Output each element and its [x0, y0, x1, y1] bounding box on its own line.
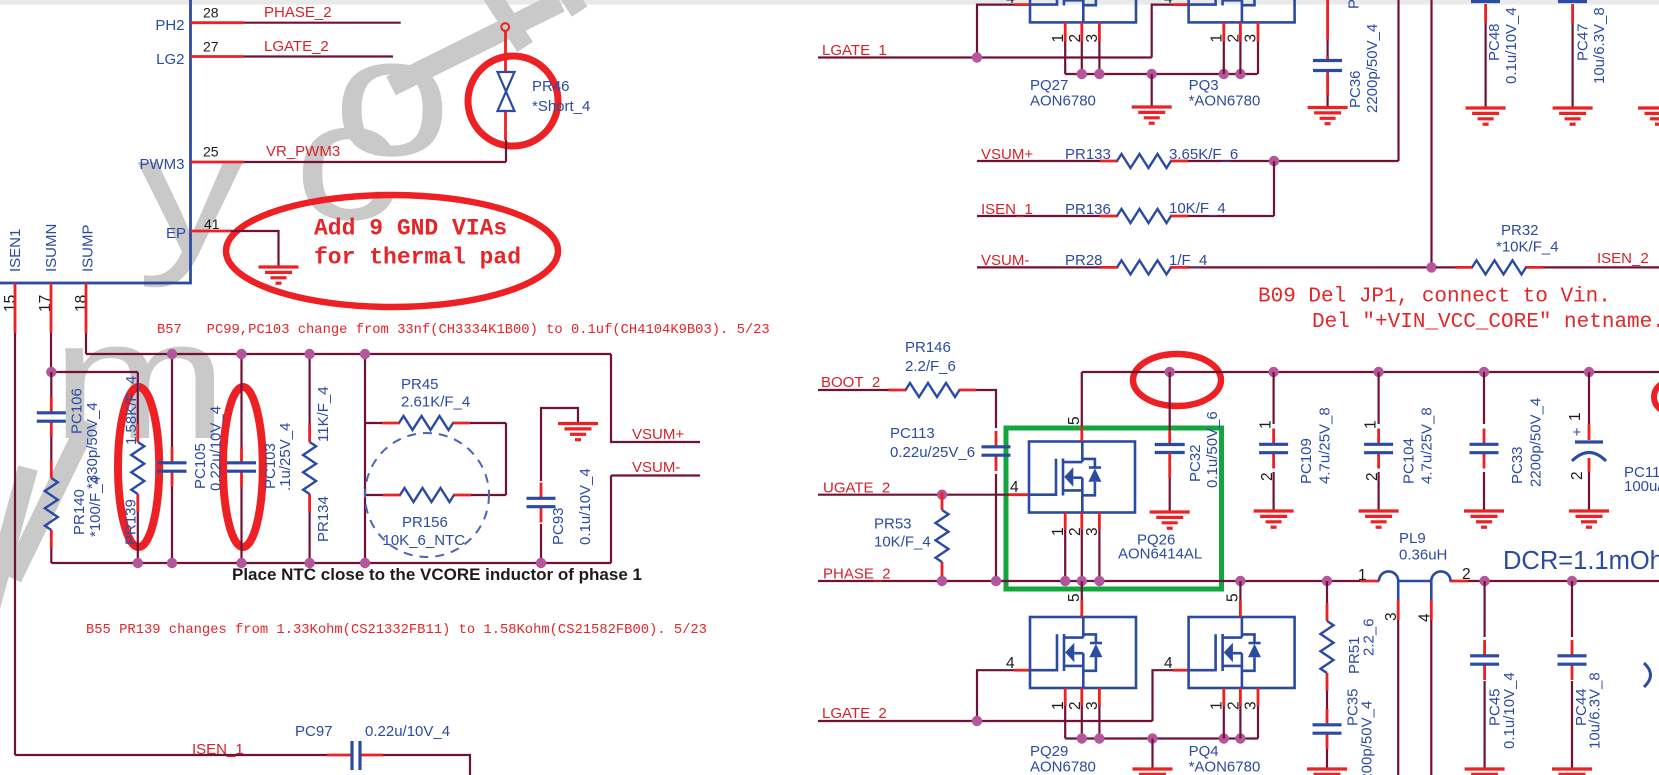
svg-text:VSUM+: VSUM+: [632, 426, 684, 443]
wire PQ26 drain: [1081, 372, 1083, 426]
svg-text:ISEN_1: ISEN_1: [981, 201, 1033, 218]
svg-text:5: 5: [1066, 593, 1083, 602]
wire EP to ground: [231, 231, 279, 267]
wire PQ29 drain: [1081, 581, 1083, 600]
svg-text:PC104: PC104: [1401, 438, 1418, 484]
svg-text:2.2_6: 2.2_6: [1361, 618, 1378, 656]
svg-text:PC48: PC48: [1486, 23, 1503, 61]
svg-text:LGATE_2: LGATE_2: [264, 38, 329, 55]
wire PQ27 source to bus: [1065, 42, 1099, 75]
svg-text:ISEN_2: ISEN_2: [1597, 250, 1649, 267]
svg-text:LGATE_2: LGATE_2: [822, 705, 887, 722]
resistor PR46 *Short_4 branch: [501, 23, 509, 31]
wire VR_PWM3: [244, 140, 506, 162]
wire VSUM- riser: [1430, 0, 1432, 267]
svg-text:VSUM+: VSUM+: [981, 146, 1033, 163]
pin ISUMP stub: [85, 283, 88, 333]
svg-text:PC47: PC47: [1575, 23, 1592, 61]
pin 4 stub PQ4: [1173, 669, 1189, 672]
capacitor PC36: [1326, 0, 1329, 40]
svg-text:ISUMN: ISUMN: [43, 224, 60, 272]
svg-text:5: 5: [1225, 593, 1242, 602]
svg-text:ISEN_1: ISEN_1: [192, 741, 244, 758]
svg-text:2200p/50V_4: 2200p/50V_4: [1359, 701, 1376, 775]
svg-text:2200p/50V_4: 2200p/50V_4: [1364, 24, 1381, 113]
svg-text:PC109: PC109: [1298, 438, 1315, 484]
svg-text:0.1u/10V_4: 0.1u/10V_4: [1503, 7, 1520, 84]
svg-text:4: 4: [1010, 479, 1019, 496]
svg-text:0.22u/25V_6: 0.22u/25V_6: [890, 444, 975, 461]
svg-text:3: 3: [1084, 527, 1101, 536]
capacitor PC44: [1571, 581, 1573, 769]
svg-text:10K/F_4: 10K/F_4: [1169, 200, 1226, 217]
svg-text:2200p/50V_4: 2200p/50V_4: [1528, 398, 1545, 487]
wire PQ4 gate branch: [1153, 670, 1174, 721]
watermark background strip: [0, 0, 1659, 5]
wire ISUMP to top bus: [85, 333, 87, 354]
node PHASE_2 dots: [937, 576, 947, 586]
svg-text:100u/25V: 100u/25V: [1624, 478, 1659, 495]
wire VSUM+ row: [977, 160, 1399, 162]
inductor PL9: [1361, 580, 1468, 583]
wire LGATE_1: [818, 56, 1152, 58]
annotation circle around PR46: [468, 56, 558, 146]
capacitor PC93: [541, 408, 578, 563]
wire PQ27 gate branch: [977, 5, 1015, 58]
capacitor PC105: [171, 354, 173, 563]
pin stubs PQ27 source: [1065, 22, 1099, 41]
annotation ellipse Add 9 GND VIAs: [226, 195, 558, 307]
svg-text:2: 2: [1259, 472, 1276, 481]
capacitor PC115 polarized: [1584, 367, 1594, 377]
svg-text:PQ27: PQ27: [1030, 77, 1068, 94]
svg-text:2: 2: [1226, 34, 1243, 43]
svg-text:1: 1: [1358, 567, 1367, 584]
pin PWM3 stub: [191, 161, 244, 164]
transistor PQ3: [1189, 0, 1295, 22]
node LGATE_1 junction: [972, 52, 982, 62]
node top bus dots: [167, 349, 177, 359]
svg-text:28: 28: [203, 5, 219, 21]
svg-text:1/F_4: 1/F_4: [1169, 252, 1207, 269]
annotation ellipse PC103: [223, 387, 263, 547]
ground PC32: [1150, 512, 1190, 528]
ground PC48: [1466, 108, 1506, 124]
resistor PR53: [941, 495, 943, 501]
wire top bus VIN phase2: [1082, 371, 1659, 373]
svg-text:2: 2: [1226, 701, 1243, 710]
svg-text:11K/F_4: 11K/F_4: [315, 386, 332, 442]
svg-text:PC97: PC97: [295, 723, 333, 740]
svg-text:*Short_4: *Short_4: [532, 98, 590, 115]
svg-text:4: 4: [1164, 655, 1173, 672]
svg-text:PC36: PC36: [1347, 70, 1364, 108]
svg-text:.1u/25V_4: .1u/25V_4: [277, 423, 294, 491]
svg-text:PC105: PC105: [192, 443, 209, 489]
pin ISEN1 stub: [14, 283, 17, 333]
wire LGATE_2 (pin 27): [244, 55, 393, 57]
svg-text:4: 4: [1164, 0, 1173, 7]
svg-text:1.58K/F_4: 1.58K/F_4: [123, 376, 140, 445]
svg-text:LG2: LG2: [156, 51, 184, 68]
wire ISEN_1 vertical: [14, 333, 16, 755]
svg-text:PQ4: PQ4: [1189, 743, 1219, 760]
node bottom bus dots: [133, 558, 143, 568]
svg-text:1: 1: [1209, 34, 1226, 43]
svg-text:B55 PR139 changes from 1.33Koh: B55 PR139 changes from 1.33Kohm(CS21332F…: [86, 622, 707, 638]
wire PHASE_2 (pin 28): [244, 22, 401, 24]
svg-text:VSUM-: VSUM-: [632, 459, 680, 476]
capacitor PC32: [1169, 372, 1171, 430]
svg-text:P: P: [1346, 0, 1363, 9]
svg-text:PR46: PR46: [532, 78, 570, 95]
node VSUM+ / ISEN_1 junction: [1269, 156, 1279, 166]
capacitor PC103: [240, 354, 242, 563]
ground bottom bus: [1151, 739, 1153, 770]
capacitor PC104: [1373, 367, 1383, 377]
wire PQ4 drain: [1239, 581, 1241, 600]
pin LG2 stub: [191, 55, 244, 58]
svg-text:5: 5: [1066, 416, 1083, 425]
wire bottom bus: [51, 562, 611, 564]
svg-text:PHASE_2: PHASE_2: [264, 4, 332, 21]
svg-text:1: 1: [1567, 412, 1584, 421]
svg-text:2: 2: [1364, 472, 1381, 481]
svg-text:3: 3: [1383, 612, 1400, 621]
dashed circle around PR156: [365, 433, 489, 557]
wire PQ3 gate branch: [1152, 5, 1173, 58]
svg-text:10K/F_4: 10K/F_4: [874, 534, 931, 551]
svg-text:3: 3: [1084, 34, 1101, 43]
svg-text:AON6780: AON6780: [1030, 93, 1096, 110]
svg-text:Del "+VIN_VCC_CORE" netname.: Del "+VIN_VCC_CORE" netname.: [1312, 311, 1659, 334]
annotation ellipse PR139: [118, 387, 159, 547]
wire rail ISUMN: [51, 371, 138, 373]
pin 4 stub PQ29: [1015, 669, 1031, 672]
svg-text:PR156: PR156: [402, 514, 448, 531]
resistor PR136: [1100, 209, 1188, 223]
green annotation box PQ26: [1006, 428, 1222, 589]
svg-text:PC33: PC33: [1509, 446, 1526, 484]
capacitor PC48: [1471, 0, 1500, 3]
svg-text:PC106: PC106: [69, 388, 86, 434]
wire VSUM- row: [977, 266, 1436, 268]
wire VSUM+ riser: [1397, 0, 1399, 161]
wire VSUM- branch: [611, 476, 700, 564]
node UGATE_2 / PR53: [937, 490, 947, 500]
resistor PR156 NTC: [365, 494, 506, 496]
node rail/PC106 junction: [46, 367, 56, 377]
wire ISEN_1 row: [977, 161, 1274, 216]
svg-text:1: 1: [1258, 420, 1275, 429]
wire ISUMN to rail: [50, 333, 52, 372]
svg-text:PR140: PR140: [71, 489, 88, 535]
svg-text:PR139: PR139: [123, 499, 140, 545]
svg-text:1: 1: [1050, 34, 1067, 43]
svg-text:PH2: PH2: [155, 17, 184, 34]
svg-text:1: 1: [1209, 701, 1226, 710]
wire PHASE_2 row: [818, 580, 1659, 582]
svg-text:DCR=1.1mOhm: DCR=1.1mOhm: [1503, 547, 1659, 575]
transistor PQ29: [1030, 617, 1136, 688]
wire UGATE_2: [818, 494, 1009, 496]
svg-text:PR45: PR45: [401, 376, 439, 393]
resistor PR32: [1436, 266, 1659, 268]
svg-text:*100/F_4: *100/F_4: [87, 476, 104, 537]
annotation ellipse on bus: [1133, 354, 1221, 406]
svg-text:*AON6780: *AON6780: [1189, 93, 1261, 110]
svg-text:PR53: PR53: [874, 516, 912, 533]
resistor PR134: [309, 354, 311, 563]
svg-text:2.61K/F_4: 2.61K/F_4: [401, 394, 470, 411]
svg-text:for thermal pad: for thermal pad: [314, 245, 521, 271]
capacitor PC113: [982, 431, 1011, 471]
svg-text:PL9: PL9: [1399, 530, 1426, 547]
svg-text:EP: EP: [166, 225, 186, 242]
svg-text:4.7u/25V_8: 4.7u/25V_8: [1419, 407, 1436, 484]
capacitor PC45: [1483, 581, 1485, 769]
pin 4 stub PQ26: [1009, 493, 1029, 496]
svg-text:3: 3: [1084, 701, 1101, 710]
resistor PR45: [365, 422, 506, 424]
svg-text:0.1u/50V_6: 0.1u/50V_6: [1204, 411, 1221, 488]
ground EP: [259, 267, 299, 283]
svg-text:B09 Del JP1, connect to Vin.: B09 Del JP1, connect to Vin.: [1258, 286, 1611, 309]
resistor PR139: [137, 372, 139, 563]
svg-text:3: 3: [1243, 34, 1260, 43]
node VSUM- riser junction: [1426, 262, 1436, 272]
ground PC35 partial: [1307, 769, 1347, 775]
svg-text:PR146: PR146: [905, 339, 951, 356]
svg-text:PC113: PC113: [890, 425, 935, 442]
resistor PR51: [1326, 581, 1328, 603]
svg-text:27: 27: [203, 39, 219, 55]
svg-text:VSUM-: VSUM-: [981, 252, 1029, 269]
capacitor PC109: [1268, 367, 1278, 377]
svg-text:10u/6.3V_8: 10u/6.3V_8: [1591, 7, 1608, 84]
capacitor PC97: [352, 741, 360, 770]
wire PR45/PR156 right vertical: [505, 423, 507, 495]
svg-text:PHASE_2: PHASE_2: [823, 566, 891, 583]
pin PH2 stub: [191, 21, 244, 24]
watermark letters: [51, 1, 451, 474]
svg-text:PR133: PR133: [1065, 146, 1111, 163]
resistor PR28: [1100, 260, 1188, 274]
svg-text:2.2/F_6: 2.2/F_6: [905, 358, 956, 375]
pin 4 stub PQ3: [1173, 3, 1189, 6]
svg-text:2: 2: [1569, 471, 1586, 480]
svg-text:18: 18: [73, 295, 90, 312]
svg-text:BOOT_2: BOOT_2: [821, 374, 880, 391]
wire ISEN_1 row: [15, 755, 470, 775]
wire source bus top: [1065, 73, 1257, 75]
wire source bus bottom: [1065, 737, 1258, 739]
svg-text:4.7u/25V_8: 4.7u/25V_8: [1317, 407, 1334, 484]
svg-text:3: 3: [1243, 701, 1260, 710]
svg-text:+: +: [1573, 424, 1582, 441]
svg-text:10K_6_NTC: 10K_6_NTC: [383, 532, 466, 549]
svg-text:10u/6.3V_8: 10u/6.3V_8: [1587, 672, 1604, 749]
ground partial right edge: [1638, 108, 1659, 124]
wire PQ29 gate branch: [977, 670, 1015, 721]
resistor PR146: [889, 383, 977, 397]
watermark slashes: [0, 422, 88, 615]
svg-text:0.1u/10V_4: 0.1u/10V_4: [1501, 672, 1518, 749]
svg-text:0.36uH: 0.36uH: [1399, 547, 1447, 564]
wire BOOT_2 to PC113: [977, 390, 997, 579]
pin ISUMN stub: [50, 283, 53, 333]
ground PC47: [1553, 108, 1593, 124]
svg-text:PWM3: PWM3: [140, 156, 185, 173]
svg-text:PC32: PC32: [1187, 444, 1204, 482]
wire BOOT_2: [818, 389, 896, 391]
ground PC93: [558, 424, 598, 440]
ground PC36: [1308, 108, 1348, 124]
capacitor PC47: [1558, 0, 1587, 3]
wire top bus ISUMP: [86, 353, 611, 355]
capacitor PC33: [1479, 367, 1489, 377]
ground PC45 partial: [1465, 769, 1505, 775]
svg-text:AON6780: AON6780: [1030, 759, 1096, 775]
svg-text:PR28: PR28: [1065, 252, 1103, 269]
svg-text:ISUMP: ISUMP: [80, 224, 97, 272]
pin stubs PQ26 source: [1065, 513, 1099, 531]
svg-text:2: 2: [1067, 527, 1084, 536]
svg-text:AON6414AL: AON6414AL: [1118, 546, 1202, 563]
capacitor PC35: [1313, 709, 1342, 749]
wire PQ26 source to PHASE_2: [1065, 530, 1099, 581]
ground top bus: [1151, 74, 1153, 107]
pin EP stub: [191, 230, 232, 233]
IC U_VR box: [0, 0, 191, 283]
resistor PR133: [1100, 154, 1188, 168]
svg-text:Place NTC close to the VCORE i: Place NTC close to the VCORE inductor of…: [232, 565, 642, 584]
pin stubs PQ29 source: [1065, 688, 1099, 706]
svg-text:PQ3: PQ3: [1189, 77, 1219, 94]
svg-text:2: 2: [1462, 566, 1471, 583]
resistor PR140: [45, 460, 58, 548]
svg-text:PR32: PR32: [1501, 222, 1539, 239]
svg-text:*10K/F_4: *10K/F_4: [1496, 239, 1559, 256]
pin 4 stub PQ27: [1015, 3, 1031, 6]
svg-text:2: 2: [1067, 701, 1084, 710]
svg-text:4: 4: [1417, 613, 1434, 622]
svg-text:2: 2: [1067, 34, 1084, 43]
svg-text:0.1u/10V_4: 0.1u/10V_4: [577, 468, 594, 545]
svg-text:1: 1: [1050, 701, 1067, 710]
wire PQ3 source to bus: [1224, 42, 1258, 75]
svg-text:PC93: PC93: [550, 507, 567, 545]
node PC32 bus junction: [1165, 367, 1175, 377]
svg-text:4: 4: [1006, 655, 1015, 672]
wire LGATE_2: [818, 720, 1153, 722]
pin stubs PQ4 source: [1224, 688, 1258, 706]
pin stubs PQ3 source: [1224, 22, 1258, 41]
svg-text:1: 1: [1050, 527, 1067, 536]
svg-text:0.22u/10V_4: 0.22u/10V_4: [365, 723, 450, 740]
capacitor PC106: [50, 372, 52, 460]
capacitor arc right edge: [1644, 663, 1651, 687]
svg-text:ISEN1: ISEN1: [7, 229, 24, 272]
svg-text:PR136: PR136: [1065, 201, 1111, 218]
svg-text:PR134: PR134: [315, 496, 332, 542]
wire VSUM+ branch: [611, 354, 700, 442]
svg-text:25: 25: [203, 144, 219, 160]
svg-text:15: 15: [2, 295, 19, 312]
svg-text:Add 9 GND VIAs: Add 9 GND VIAs: [314, 216, 507, 242]
transistor PQ26 AON6414AL: [1029, 442, 1135, 513]
svg-text:VR_PWM3: VR_PWM3: [266, 143, 340, 160]
svg-text:1: 1: [1363, 420, 1380, 429]
transistor PQ4: [1189, 617, 1295, 688]
svg-text:4: 4: [1006, 0, 1015, 7]
svg-text:B57 PC99,PC103 change from 3: B57 PC99,PC103 change from 33nf(CH3334K1…: [157, 322, 770, 338]
svg-text:3.65K/F_6: 3.65K/F_6: [1169, 146, 1238, 163]
wire left vertical of PR45/PR156: [364, 354, 366, 563]
svg-text:*330p/50V_4: *330p/50V_4: [84, 402, 101, 489]
annotation circle right edge partial: [1654, 382, 1659, 412]
svg-text:0.22u/10V_4: 0.22u/10V_4: [208, 406, 225, 491]
ground PC44 partial: [1552, 769, 1592, 775]
svg-text:PQ29: PQ29: [1030, 743, 1068, 760]
transistor PQ27: [1030, 0, 1136, 22]
svg-text:*AON6780: *AON6780: [1189, 759, 1261, 775]
